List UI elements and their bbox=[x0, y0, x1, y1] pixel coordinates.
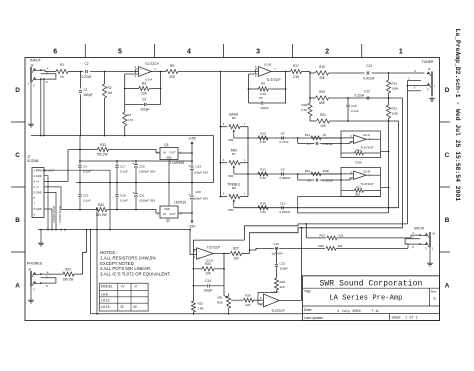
svg-text:1uF 50V: 1uF 50V bbox=[271, 252, 282, 256]
svg-text:4 -V: 4 -V bbox=[34, 185, 39, 189]
svg-text:TL072CP: TL072CP bbox=[360, 182, 373, 186]
svg-text:C30: C30 bbox=[139, 165, 145, 169]
svg-text:Title:: Title: bbox=[304, 289, 312, 293]
svg-text:33K: 33K bbox=[319, 76, 326, 80]
svg-text:J4: J4 bbox=[432, 232, 435, 236]
svg-text:MIX IN: MIX IN bbox=[414, 226, 424, 230]
svg-text:R15: R15 bbox=[260, 132, 266, 136]
svg-text:750 2W: 750 2W bbox=[97, 152, 108, 156]
svg-text:R16: R16 bbox=[260, 201, 266, 205]
svg-text:Q2: Q2 bbox=[166, 219, 170, 223]
svg-text:R13: R13 bbox=[260, 168, 266, 172]
svg-text:50K: 50K bbox=[228, 208, 234, 212]
svg-text:2: 2 bbox=[325, 49, 329, 56]
svg-text:SWR Sound Corporation: SWR Sound Corporation bbox=[319, 280, 422, 289]
svg-text:3: 3 bbox=[256, 49, 260, 56]
svg-text:R33: R33 bbox=[100, 143, 106, 147]
svg-text:0.1uF: 0.1uF bbox=[351, 109, 359, 113]
svg-text:5 GND: 5 GND bbox=[34, 191, 42, 195]
svg-text:0.1uF: 0.1uF bbox=[120, 199, 128, 203]
svg-text:R7: R7 bbox=[232, 152, 236, 156]
svg-text:C6: C6 bbox=[281, 132, 285, 136]
svg-text:2.2K: 2.2K bbox=[293, 75, 300, 79]
svg-text:22k: 22k bbox=[339, 233, 344, 237]
svg-text:32: 32 bbox=[120, 305, 124, 309]
svg-text:Q1: Q1 bbox=[164, 143, 168, 147]
svg-text:C12: C12 bbox=[364, 90, 370, 94]
svg-text:56K: 56K bbox=[319, 101, 326, 105]
svg-text:270K: 270K bbox=[355, 160, 362, 164]
svg-text:R34: R34 bbox=[98, 203, 104, 207]
svg-text:T.A.: T.A. bbox=[372, 310, 381, 314]
svg-text:3.3K: 3.3K bbox=[260, 176, 266, 180]
svg-text:33K: 33K bbox=[355, 192, 360, 196]
svg-text:R12: R12 bbox=[356, 148, 361, 152]
svg-text:3.ALL IC'S TL072 OR EQUIVALENT: 3.ALL IC'S TL072 OR EQUIVALENT. bbox=[100, 271, 171, 276]
svg-text:180 2W: 180 2W bbox=[63, 278, 74, 282]
svg-text:1 of 1: 1 of 1 bbox=[405, 316, 418, 321]
svg-text:1.ALL RESISTORS 1/4W,5%: 1.ALL RESISTORS 1/4W,5% bbox=[100, 256, 156, 261]
svg-text:10K: 10K bbox=[320, 124, 327, 128]
svg-text:TL072CP: TL072CP bbox=[266, 78, 281, 82]
svg-text:3.3K: 3.3K bbox=[260, 210, 266, 214]
svg-text:LA 8: LA 8 bbox=[101, 292, 108, 296]
svg-text:OUT: OUT bbox=[170, 151, 176, 155]
svg-text:R2: R2 bbox=[108, 86, 112, 90]
svg-text:R3: R3 bbox=[142, 81, 146, 85]
svg-text:U1-B: U1-B bbox=[264, 62, 271, 66]
svg-text:R15: R15 bbox=[356, 186, 361, 190]
svg-text:100pF: 100pF bbox=[140, 107, 149, 111]
svg-text:0.22uF: 0.22uF bbox=[82, 75, 92, 79]
svg-text:J3: J3 bbox=[428, 67, 431, 71]
svg-text:0.015uF: 0.015uF bbox=[279, 210, 290, 214]
svg-text:R19: R19 bbox=[319, 65, 325, 69]
svg-text:2 LM7815: 2 LM7815 bbox=[170, 161, 185, 165]
svg-text:50K: 50K bbox=[228, 174, 234, 178]
svg-text:2 July 2001: 2 July 2001 bbox=[337, 309, 361, 314]
svg-text:MODEL: MODEL bbox=[101, 284, 113, 288]
svg-text:TL072CP: TL072CP bbox=[360, 146, 373, 150]
svg-text:330K: 330K bbox=[323, 169, 330, 173]
svg-text:C16: C16 bbox=[273, 242, 279, 246]
svg-text:0.1uF: 0.1uF bbox=[120, 170, 128, 174]
svg-text:4: 4 bbox=[187, 49, 191, 56]
svg-text:R32: R32 bbox=[65, 267, 71, 271]
svg-text:SCON8: SCON8 bbox=[27, 159, 39, 163]
svg-text:R30: R30 bbox=[318, 244, 324, 248]
svg-text:C18: C18 bbox=[120, 194, 126, 198]
svg-text:R29: R29 bbox=[280, 280, 286, 284]
svg-text:C: C bbox=[15, 152, 20, 159]
svg-text:C: C bbox=[445, 152, 450, 159]
svg-text:LA 15: LA 15 bbox=[101, 305, 110, 309]
svg-text:3.3K: 3.3K bbox=[301, 108, 307, 112]
svg-text:A: A bbox=[445, 282, 450, 289]
svg-text:R5: R5 bbox=[170, 64, 174, 68]
svg-text:50K: 50K bbox=[217, 296, 222, 300]
svg-text:C4: C4 bbox=[83, 165, 87, 169]
svg-text:100pF: 100pF bbox=[203, 289, 212, 293]
svg-text:LA 12: LA 12 bbox=[101, 299, 110, 303]
svg-text:R24: R24 bbox=[205, 262, 211, 266]
svg-text:0.001uF: 0.001uF bbox=[363, 77, 375, 81]
svg-text:NOTES :: NOTES : bbox=[100, 250, 117, 255]
svg-text:C8: C8 bbox=[281, 168, 285, 172]
svg-text:100uF 16V: 100uF 16V bbox=[194, 197, 209, 201]
svg-text:R14: R14 bbox=[305, 169, 311, 173]
svg-text:PHONES: PHONES bbox=[27, 262, 43, 266]
svg-text:C19: C19 bbox=[196, 165, 202, 169]
svg-text:C15: C15 bbox=[280, 262, 286, 266]
svg-text:C10: C10 bbox=[280, 201, 286, 205]
svg-text:C9: C9 bbox=[307, 179, 311, 183]
svg-text:R31: R31 bbox=[319, 233, 325, 237]
svg-text:IN: IN bbox=[163, 151, 166, 155]
svg-text:Last update:: Last update: bbox=[304, 316, 324, 320]
svg-text:1000uF 35V: 1000uF 35V bbox=[139, 199, 155, 203]
svg-text:R23: R23 bbox=[392, 82, 398, 86]
svg-text:C2: C2 bbox=[84, 62, 88, 66]
svg-text:EXCEPT NOTED.: EXCEPT NOTED. bbox=[100, 261, 135, 266]
svg-text:R4: R4 bbox=[127, 113, 131, 117]
svg-text:1K: 1K bbox=[323, 133, 327, 137]
svg-text:0.1uF: 0.1uF bbox=[83, 199, 91, 203]
svg-text:22k: 22k bbox=[338, 244, 343, 248]
svg-text:J2: J2 bbox=[30, 64, 34, 68]
svg-text:Date:: Date: bbox=[304, 308, 313, 312]
svg-text:5: 5 bbox=[118, 49, 122, 56]
svg-text:C13: C13 bbox=[366, 64, 372, 68]
svg-text:32: 32 bbox=[133, 305, 137, 309]
svg-text:U2-A: U2-A bbox=[363, 133, 370, 137]
svg-text:U1-A: U1-A bbox=[145, 77, 153, 81]
svg-text:R17: R17 bbox=[293, 64, 299, 68]
svg-text:R18: R18 bbox=[301, 103, 307, 107]
svg-text:J7: J7 bbox=[27, 155, 31, 159]
svg-text:TUNER: TUNER bbox=[422, 60, 435, 64]
svg-text:Rev:: Rev: bbox=[431, 289, 437, 293]
svg-text:FROM SPKR: FROM SPKR bbox=[52, 206, 56, 223]
svg-text:R8: R8 bbox=[232, 186, 236, 190]
svg-text:TL072CP: TL072CP bbox=[145, 62, 160, 66]
svg-text:100K: 100K bbox=[392, 112, 399, 116]
svg-text:R28: R28 bbox=[245, 294, 251, 298]
svg-text:1.8K: 1.8K bbox=[198, 307, 204, 311]
svg-text:J5: J5 bbox=[28, 268, 32, 272]
svg-text:R21: R21 bbox=[320, 113, 326, 117]
svg-text:22K: 22K bbox=[280, 285, 285, 289]
svg-text:A: A bbox=[15, 282, 20, 289]
svg-text:0.27uF: 0.27uF bbox=[279, 140, 289, 144]
svg-text:3.3K: 3.3K bbox=[260, 140, 266, 144]
svg-text:R22: R22 bbox=[392, 107, 398, 111]
svg-text:6: 6 bbox=[53, 49, 57, 56]
svg-text:LA Series Pre-Amp: LA Series Pre-Amp bbox=[329, 294, 402, 302]
svg-text:4.7K: 4.7K bbox=[127, 118, 133, 122]
svg-text:+15V: +15V bbox=[188, 137, 197, 141]
svg-text:La_PreAmp_D2.sch-1 - Wed Jul 2: La_PreAmp_D2.sch-1 - Wed Jul 25 15:58:54… bbox=[454, 29, 461, 202]
svg-text:C31: C31 bbox=[139, 194, 145, 198]
svg-text:D: D bbox=[445, 87, 450, 94]
svg-text:100uF 16V: 100uF 16V bbox=[194, 170, 209, 174]
svg-text:33K: 33K bbox=[169, 75, 176, 79]
svg-text:10K: 10K bbox=[205, 272, 212, 276]
svg-text:150pF: 150pF bbox=[84, 93, 93, 97]
svg-text:OUT: OUT bbox=[170, 212, 176, 216]
svg-text:0.068uF: 0.068uF bbox=[279, 176, 290, 180]
svg-text:10K: 10K bbox=[141, 92, 148, 96]
svg-text:2.ALL POTS 50K LINEAR.: 2.ALL POTS 50K LINEAR. bbox=[100, 266, 151, 271]
svg-text:GND: GND bbox=[166, 155, 172, 159]
svg-text:R26: R26 bbox=[217, 301, 223, 305]
svg-text:R9: R9 bbox=[261, 82, 265, 86]
svg-text:100pF: 100pF bbox=[260, 106, 269, 110]
svg-text:IN: IN bbox=[163, 212, 166, 216]
svg-text:50K: 50K bbox=[228, 138, 234, 142]
svg-text:8 GND: 8 GND bbox=[34, 207, 42, 211]
svg-text:U2-B: U2-B bbox=[363, 170, 370, 174]
svg-text:R1: R1 bbox=[60, 63, 64, 67]
svg-text:C3: C3 bbox=[142, 97, 146, 101]
svg-text:R20: R20 bbox=[319, 90, 325, 94]
svg-text:C14: C14 bbox=[205, 279, 211, 283]
svg-text:R27: R27 bbox=[233, 247, 239, 251]
svg-text:TL072CP: TL072CP bbox=[207, 245, 220, 249]
svg-text:0.22uF: 0.22uF bbox=[355, 94, 365, 98]
svg-text:100K: 100K bbox=[392, 87, 399, 91]
svg-text:22K: 22K bbox=[245, 303, 250, 307]
svg-text:2 GND: 2 GND bbox=[34, 174, 42, 178]
svg-text:TL072CP: TL072CP bbox=[271, 309, 284, 313]
svg-text:D: D bbox=[15, 87, 20, 94]
svg-text:100: 100 bbox=[233, 256, 239, 260]
svg-text:C21: C21 bbox=[83, 194, 89, 198]
svg-text:C1: C1 bbox=[84, 88, 88, 92]
svg-text:R11: R11 bbox=[305, 133, 310, 137]
svg-text:INPUT: INPUT bbox=[30, 59, 42, 63]
svg-text:1000uF 20V: 1000uF 20V bbox=[139, 170, 155, 174]
svg-text:LM7915: LM7915 bbox=[174, 200, 186, 204]
svg-text:C5: C5 bbox=[259, 96, 263, 100]
svg-text:C20: C20 bbox=[196, 190, 202, 194]
svg-text:0.022uF: 0.022uF bbox=[323, 179, 334, 183]
svg-text:Sheet:: Sheet: bbox=[392, 316, 402, 320]
svg-text:B: B bbox=[445, 217, 450, 224]
svg-text:3 +V: 3 +V bbox=[34, 180, 40, 184]
svg-text:R25: R25 bbox=[198, 302, 204, 306]
svg-text:100pF: 100pF bbox=[280, 267, 289, 271]
svg-text:U3-B: U3-B bbox=[271, 290, 278, 294]
svg-text:1: 1 bbox=[399, 49, 403, 56]
svg-text:0.033uF: 0.033uF bbox=[323, 142, 334, 146]
svg-text:-15V: -15V bbox=[188, 225, 196, 229]
svg-text:6: 6 bbox=[434, 297, 436, 301]
svg-text:B: B bbox=[15, 217, 20, 224]
svg-text:R6: R6 bbox=[232, 116, 236, 120]
svg-text:C17: C17 bbox=[120, 165, 126, 169]
svg-text:1M: 1M bbox=[108, 91, 113, 95]
svg-text:GND: GND bbox=[164, 207, 170, 211]
svg-text:C7: C7 bbox=[307, 142, 311, 146]
svg-text:C15: C15 bbox=[351, 104, 357, 108]
svg-text:FROM SPKR: FROM SPKR bbox=[58, 206, 62, 223]
